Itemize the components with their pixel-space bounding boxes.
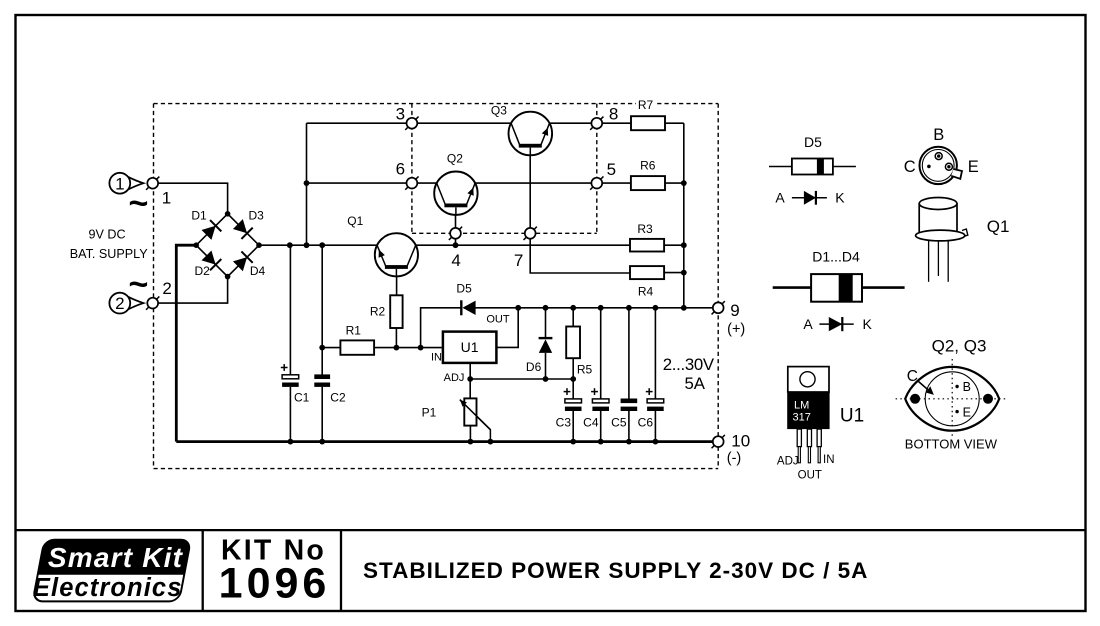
wire P1 wiper [460, 400, 491, 442]
D1-D4 pictorial symbol A-K [803, 316, 872, 332]
svg-text:C: C [907, 368, 918, 385]
svg-text:(-): (-) [727, 451, 742, 467]
svg-text:10: 10 [731, 431, 750, 450]
svg-text:7: 7 [514, 251, 523, 270]
capacitor C1 [281, 364, 299, 387]
svg-text:1096: 1096 [219, 560, 331, 608]
svg-text:R3: R3 [637, 222, 653, 236]
diode D2 [202, 251, 222, 271]
svg-text:ADJ: ADJ [777, 456, 799, 468]
svg-text:R4: R4 [638, 285, 654, 299]
label R7 with white backing [636, 98, 656, 110]
wire terminal1 to bridge top [158, 183, 228, 214]
label 9V DC BAT SUPPLY [70, 227, 149, 261]
transistor Q2 [434, 172, 477, 215]
junction dots [287, 180, 687, 444]
capacitor C5 [621, 399, 638, 412]
wire C5 vertical [628, 308, 630, 399]
wire R6 right [665, 182, 684, 184]
wire C4 vertical [600, 308, 602, 399]
pad 3 [405, 117, 418, 130]
pad 5 [590, 176, 603, 189]
svg-text:K: K [863, 316, 873, 332]
svg-text:R5: R5 [577, 363, 593, 377]
svg-text:2...30V: 2...30V [663, 355, 715, 374]
svg-text:Smart Kit: Smart Kit [48, 542, 184, 573]
op-amp U1 LM317 box [443, 332, 497, 363]
resistor R7 [631, 116, 665, 130]
resistor R3 [630, 239, 664, 252]
svg-text:D4: D4 [250, 264, 266, 278]
svg-text:C5: C5 [611, 416, 627, 430]
svg-text:Q1: Q1 [987, 217, 1010, 236]
D1...D4 pictorial [773, 274, 905, 302]
svg-text:A: A [803, 316, 813, 332]
pad 1 [146, 177, 159, 190]
D5 pictorial [769, 159, 856, 175]
svg-text:~: ~ [128, 266, 148, 304]
pad 8 [590, 117, 603, 130]
wire ADJ line [470, 378, 573, 380]
PCB notch dashed box [412, 104, 597, 234]
wire C6 vertical [654, 308, 656, 399]
transistor Q3 [509, 112, 553, 156]
wire R1 left [322, 347, 340, 349]
balloon terminal 2 [109, 293, 143, 314]
diode D5 [461, 300, 475, 315]
wire bridge plus y245 [259, 244, 630, 246]
wire ground rail thick [176, 440, 713, 443]
svg-text:1: 1 [162, 188, 171, 207]
wire net3 y123 [307, 122, 632, 124]
svg-text:1: 1 [115, 174, 124, 193]
wire D6 top [545, 308, 547, 338]
svg-text:R1: R1 [346, 324, 362, 338]
svg-text:LM: LM [794, 400, 809, 412]
svg-text:Q3: Q3 [491, 103, 507, 117]
svg-text:OUT: OUT [486, 314, 510, 326]
wire C2 bottom [321, 387, 323, 442]
U1 TO-220 pictorial [787, 367, 829, 463]
svg-text:317: 317 [793, 412, 811, 424]
title block divider 1 [202, 530, 204, 611]
pad 4 [449, 227, 462, 240]
bridge rectifier D1-D4 [193, 211, 261, 279]
svg-text:STABILIZED POWER SUPPLY 2-30V: STABILIZED POWER SUPPLY 2-30V DC / 5A [363, 558, 868, 583]
svg-text:K: K [835, 190, 845, 206]
svg-text:C2: C2 [330, 391, 346, 405]
svg-text:A: A [775, 190, 785, 206]
capacitor C3 [564, 388, 582, 411]
pad 2 [146, 296, 159, 309]
svg-text:Q2, Q3: Q2, Q3 [932, 336, 987, 355]
svg-text:Q2: Q2 [447, 152, 463, 166]
svg-text:Electronics: Electronics [33, 574, 183, 602]
wire R7 right [665, 122, 684, 124]
svg-text:Q1: Q1 [347, 214, 363, 228]
wire C1 top [289, 245, 291, 375]
transistor Q1 [375, 233, 418, 276]
wire R2 bottom [395, 328, 397, 348]
wire OUT line y308 [464, 307, 713, 309]
diode D3 [233, 219, 253, 239]
diode D1 [202, 220, 222, 240]
wire P1 bottom [469, 426, 471, 442]
svg-text:2: 2 [115, 294, 124, 313]
wire terminal2 to bridge bottom [158, 276, 228, 303]
svg-text:B: B [933, 126, 944, 144]
wire IN node up to D5 [421, 308, 462, 348]
wire right bus x684 [683, 123, 685, 308]
wire Q2 collector to pad4 [455, 206, 457, 245]
diode D4 [233, 251, 253, 271]
svg-text:8: 8 [609, 105, 618, 124]
potentiometer P1 [460, 398, 491, 429]
svg-text:D3: D3 [249, 208, 265, 222]
svg-text:9V DC: 9V DC [88, 227, 125, 241]
resistor R2 [390, 295, 402, 328]
balloon terminal 1 [109, 173, 143, 194]
svg-text:C6: C6 [638, 416, 654, 430]
svg-text:P1: P1 [422, 406, 437, 420]
svg-text:R2: R2 [370, 304, 386, 318]
resistor R4 [630, 266, 664, 279]
wire D6 bottom [545, 353, 547, 379]
wire C2 top [321, 245, 323, 375]
title block top line [16, 529, 1086, 531]
svg-text:R6: R6 [640, 159, 656, 173]
capacitor C4 [591, 388, 609, 411]
resistor R1 [340, 340, 374, 354]
wire R3 right [664, 244, 684, 246]
svg-text:R7: R7 [638, 98, 654, 112]
svg-text:U1: U1 [840, 406, 864, 427]
Q1 TO-39 can 3D view [916, 198, 968, 282]
svg-text:~: ~ [128, 185, 148, 223]
wire U1 adj pin [469, 363, 471, 399]
svg-text:4: 4 [451, 251, 460, 270]
wire U1 out riser [496, 308, 518, 348]
wire C1 bottom [289, 387, 291, 442]
svg-text:9: 9 [730, 301, 739, 320]
wire C3 vertical [572, 379, 574, 399]
svg-text:ADJ: ADJ [444, 372, 465, 384]
PCB outline dashed box [154, 104, 719, 469]
wire R4 right [664, 272, 684, 274]
D5 pictorial symbol A-K [775, 190, 845, 206]
svg-text:IN: IN [823, 454, 835, 466]
svg-text:OUT: OUT [798, 470, 822, 482]
svg-text:E: E [968, 158, 979, 176]
capacitor C2 [314, 374, 330, 387]
resistor R5 [566, 327, 580, 359]
svg-text:5: 5 [607, 160, 616, 179]
wire Q1 collector to R2 [396, 270, 398, 296]
wire R5 top [572, 308, 574, 327]
svg-text:D5: D5 [804, 134, 822, 150]
pad 10 [712, 435, 725, 448]
svg-text:C1: C1 [294, 391, 310, 405]
svg-text:D5: D5 [456, 282, 472, 296]
wire negative thick from bridge [176, 245, 196, 441]
Q1 TO-39 pinout top view [920, 147, 963, 184]
pad 7 [524, 227, 537, 240]
svg-text:B: B [963, 380, 971, 394]
Q2 Q3 TO-3 bottom view [896, 359, 1008, 436]
svg-text:6: 6 [396, 159, 405, 178]
svg-text:U1: U1 [461, 339, 479, 355]
capacitor C6 [646, 388, 664, 411]
svg-text:D1...D4: D1...D4 [812, 249, 860, 265]
svg-text:2: 2 [162, 279, 171, 298]
svg-text:D2: D2 [195, 264, 211, 278]
svg-text:3: 3 [396, 104, 405, 123]
svg-text:C3: C3 [556, 416, 572, 430]
wire R1 right to U1 IN [374, 347, 443, 349]
pad 9 [712, 301, 725, 314]
svg-text:(+): (+) [727, 322, 745, 338]
diode D6 [539, 338, 553, 353]
svg-text:BAT. SUPPLY: BAT. SUPPLY [70, 247, 149, 261]
wire net3 vertical x306 [306, 123, 308, 245]
wire net6 y183 [307, 182, 631, 184]
wire R5 bottom [572, 358, 574, 379]
svg-text:BOTTOM VIEW: BOTTOM VIEW [905, 437, 998, 452]
wire Q3 collector to pad7 to R4 [530, 147, 630, 273]
svg-text:IN: IN [431, 352, 442, 364]
pad 6 [405, 176, 418, 189]
title block divider 2 [340, 530, 342, 611]
svg-text:D1: D1 [191, 208, 207, 222]
svg-text:D6: D6 [526, 360, 542, 374]
svg-text:E: E [963, 405, 971, 419]
svg-text:C4: C4 [583, 416, 599, 430]
svg-text:C: C [904, 158, 916, 176]
svg-text:5A: 5A [684, 374, 705, 393]
resistor R6 [631, 176, 665, 190]
Smart Kit Electronics logo [33, 540, 191, 602]
